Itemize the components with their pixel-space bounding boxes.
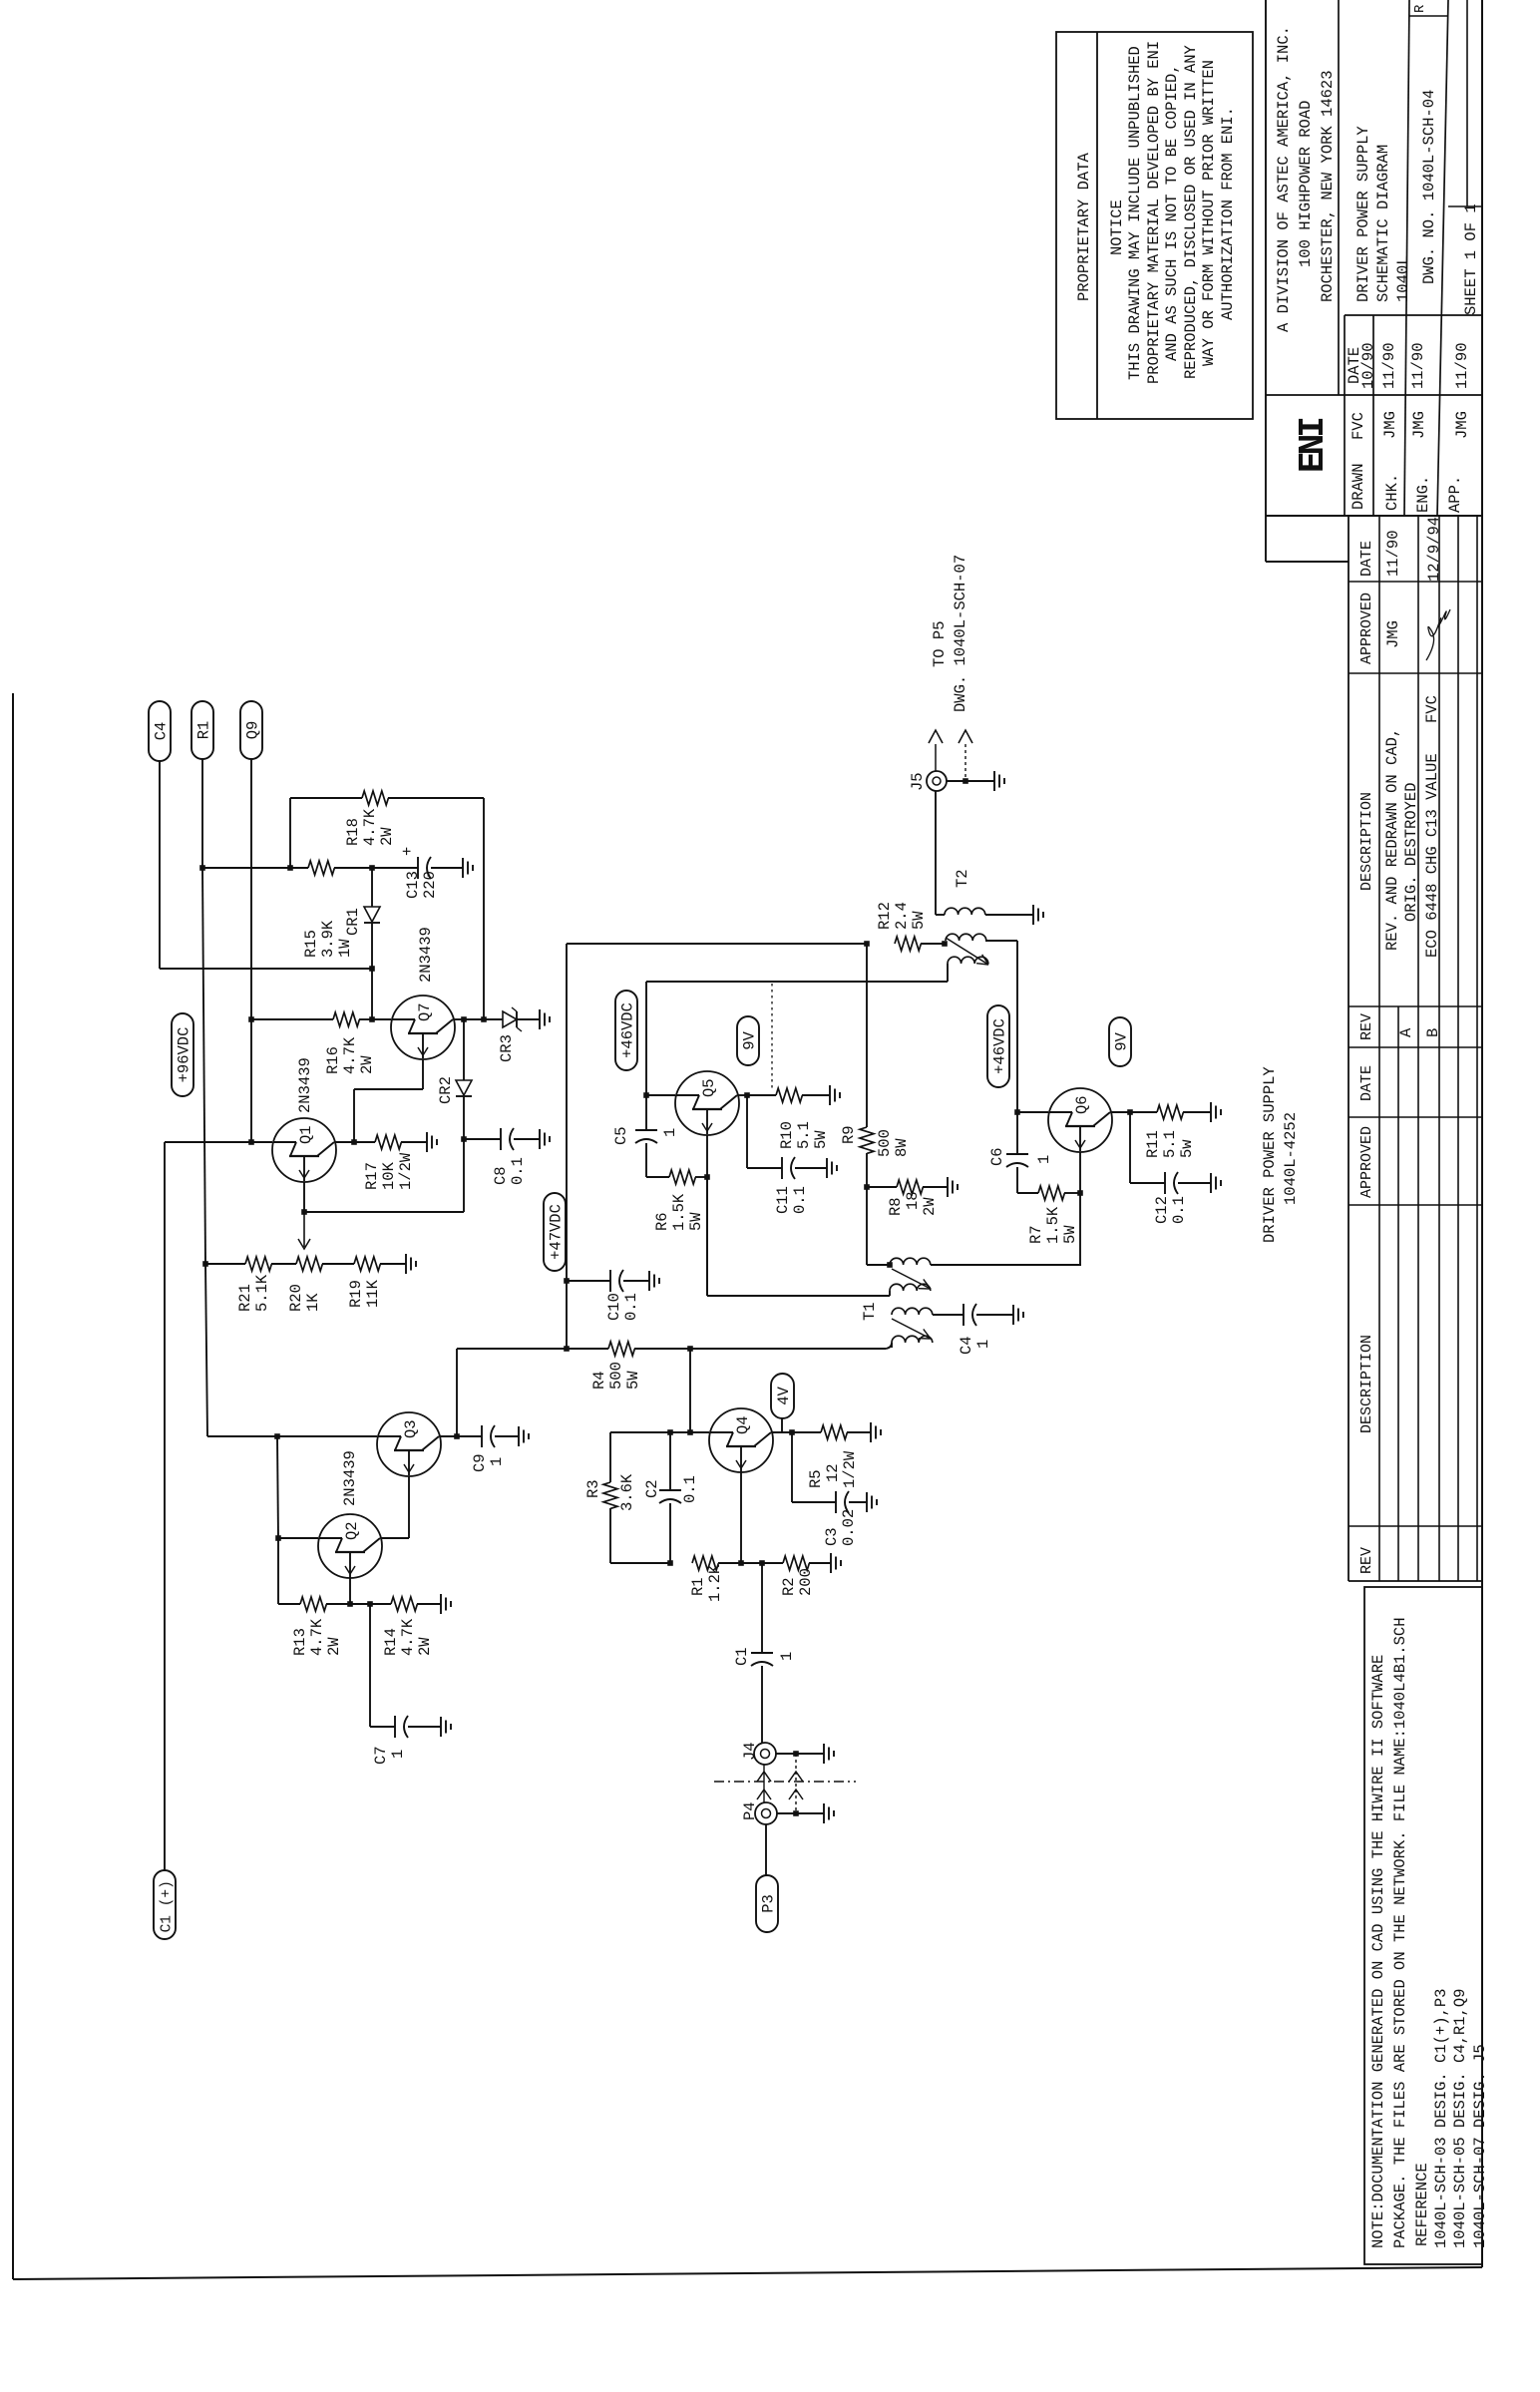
svg-text:0.1: 0.1: [509, 1157, 527, 1185]
ground C13: [462, 858, 464, 878]
svg-text:1040L-4252: 1040L-4252: [1282, 1112, 1300, 1205]
wire Q5 base: [646, 1094, 675, 1096]
svg-text:ENI: ENI: [1293, 419, 1334, 473]
transistor Q5: [675, 1071, 739, 1135]
wire C7 branch: [369, 1604, 371, 1727]
svg-text:220: 220: [421, 871, 439, 899]
wire Q1 collector: [335, 1141, 354, 1143]
revision strip rows: [1347, 516, 1349, 1581]
capacitor C5: [645, 1095, 647, 1130]
node Q3 base: [274, 1433, 280, 1439]
resistor R7: [1038, 1186, 1064, 1200]
svg-text:R7: R7: [1027, 1225, 1045, 1244]
svg-text:3.6K: 3.6K: [618, 1473, 636, 1511]
flag +46VDC 2: [987, 1005, 1009, 1087]
svg-text:5.1: 5.1: [795, 1121, 813, 1149]
svg-text:C1 (+): C1 (+): [160, 1880, 176, 1932]
svg-text:R12: R12: [876, 902, 894, 930]
capacitor C1: [751, 1652, 773, 1654]
svg-text:R6: R6: [653, 1212, 671, 1231]
ground C12: [1210, 1173, 1212, 1193]
svg-text:1: 1: [974, 1340, 992, 1349]
wire R18 right drop: [388, 797, 484, 799]
svg-text:NOTICE: NOTICE: [1108, 199, 1126, 255]
svg-text:CR1: CR1: [344, 908, 362, 936]
svg-text:P4: P4: [741, 1801, 759, 1820]
svg-text:C4: C4: [958, 1336, 975, 1355]
svg-text:2N3439: 2N3439: [296, 1057, 314, 1113]
transistor Q1 2N3439: [272, 1118, 336, 1182]
svg-text:PROPRIETARY DATA: PROPRIETARY DATA: [1075, 152, 1093, 301]
svg-text:REV. AND REDRAWN ON CAD,: REV. AND REDRAWN ON CAD,: [1383, 728, 1401, 951]
wire R13-R14 row: [326, 1603, 391, 1605]
svg-text:2W: 2W: [325, 1637, 343, 1656]
ground C10: [648, 1271, 650, 1291]
wire Q4 emitter: [740, 1471, 742, 1563]
svg-text:DWG. 1040L-SCH-07: DWG. 1040L-SCH-07: [952, 555, 969, 712]
wire P4 to P3: [765, 1824, 767, 1875]
svg-text:+46VDC: +46VDC: [619, 1002, 637, 1058]
REV box top right: [1409, 15, 1448, 17]
svg-text:APPROVED: APPROVED: [1358, 1126, 1375, 1198]
connector separation line: [714, 1781, 856, 1783]
svg-text:R18: R18: [344, 818, 362, 846]
svg-text:12/9/94: 12/9/94: [1425, 517, 1443, 582]
wire Q6 emitter: [1079, 1152, 1081, 1193]
node CR1-C4: [369, 966, 375, 972]
svg-text:R17: R17: [363, 1162, 381, 1190]
ground R2: [809, 1562, 831, 1564]
svg-text:1: 1: [389, 1750, 407, 1759]
svg-text:JMG: JMG: [1453, 411, 1471, 439]
svg-text:18: 18: [904, 1191, 922, 1210]
svg-text:THIS DRAWING MAY INCLUDE UNPUB: THIS DRAWING MAY INCLUDE UNPUBLISHED: [1126, 46, 1144, 380]
wire R7 row: [1017, 1192, 1038, 1194]
transistor Q7 2N3439: [391, 996, 455, 1059]
node Q6 base: [1014, 1109, 1020, 1115]
svg-text:2N3439: 2N3439: [341, 1450, 359, 1506]
svg-text:DESCRIPTION: DESCRIPTION: [1358, 1335, 1375, 1433]
capacitor C2: [669, 1432, 671, 1490]
flag +46VDC: [615, 991, 637, 1070]
wire Q3 collector riser: [456, 1349, 458, 1436]
arrow J5 shield out: [964, 744, 966, 781]
svg-text:ORIG. DESTROYED: ORIG. DESTROYED: [1402, 782, 1420, 922]
flag +96VDC: [172, 1013, 193, 1096]
wire R16 line: [248, 1016, 254, 1022]
svg-text:T2: T2: [954, 869, 971, 888]
svg-text:2W: 2W: [378, 827, 396, 846]
node R4 left: [564, 1346, 570, 1352]
capacitor C11: [781, 1157, 783, 1179]
wire Q7 collector: [454, 1018, 464, 1020]
ground C8: [539, 1129, 541, 1149]
resistor R16: [333, 1012, 359, 1026]
ground C4: [1012, 1305, 1014, 1325]
svg-text:4.7K: 4.7K: [361, 808, 379, 846]
ground R11: [1183, 1111, 1211, 1113]
svg-text:C7: C7: [372, 1746, 390, 1765]
revision strip column dividers: [1348, 581, 1482, 583]
resistor R19: [354, 1257, 380, 1271]
resistor R11: [1157, 1105, 1183, 1119]
svg-text:DWG. NO. 1040L-SCH-04: DWG. NO. 1040L-SCH-04: [1420, 90, 1438, 284]
svg-text:11/90: 11/90: [1384, 530, 1402, 577]
svg-text:Q5: Q5: [700, 1078, 718, 1097]
svg-text:0.1: 0.1: [791, 1186, 809, 1214]
wire R1/+96VDC bus: [201, 759, 203, 868]
svg-text:5W: 5W: [624, 1371, 642, 1390]
svg-text:REV: REV: [1358, 1013, 1375, 1040]
potentiometer R20: [296, 1257, 322, 1271]
wire Q4 base drop: [689, 1349, 691, 1432]
flag +47VDC: [544, 1193, 566, 1271]
svg-text:R1: R1: [195, 721, 213, 740]
flag Q9 (off-sheet): [240, 701, 262, 759]
svg-text:2N3439: 2N3439: [417, 927, 435, 983]
svg-text:C2: C2: [643, 1479, 661, 1498]
svg-text:A: A: [1397, 1027, 1415, 1037]
svg-text:R4: R4: [590, 1371, 608, 1390]
sheet border: [12, 693, 14, 2279]
svg-text:C5: C5: [612, 1126, 630, 1145]
svg-text:Q9: Q9: [244, 721, 262, 740]
svg-text:1: 1: [1035, 1155, 1053, 1164]
svg-text:C10: C10: [605, 1293, 623, 1321]
wire R6 to Q5 emitter: [695, 1176, 707, 1178]
svg-text:1: 1: [778, 1652, 796, 1661]
svg-text:CR3: CR3: [498, 1034, 516, 1062]
resistor R17: [375, 1135, 401, 1149]
svg-text:R3: R3: [584, 1479, 602, 1498]
svg-text:Q6: Q6: [1073, 1095, 1091, 1114]
connector J4: [754, 1743, 776, 1765]
capacitor C9: [481, 1425, 483, 1447]
node CR2-C8: [461, 1136, 467, 1142]
wire CR2 to Q1 emitter row: [463, 1139, 465, 1212]
wire +46VDC rail: [645, 982, 647, 1095]
svg-text:12: 12: [824, 1463, 842, 1482]
flag 9V: [737, 1016, 759, 1065]
svg-text:1040L-SCH-03 DESIG. C1(+),P3: 1040L-SCH-03 DESIG. C1(+),P3: [1432, 1989, 1450, 2248]
svg-text:Q7: Q7: [416, 1002, 434, 1021]
svg-text:1040L: 1040L: [1394, 255, 1412, 302]
wire C11 branch: [746, 1095, 748, 1168]
wire Q3 base: [277, 1435, 377, 1437]
T1 winding 3: [892, 1308, 933, 1315]
resistor R18: [362, 791, 388, 805]
svg-text:JMG: JMG: [1410, 411, 1428, 439]
wire R1 row: [738, 1560, 744, 1566]
resistor R14: [391, 1597, 417, 1611]
resistor R6: [669, 1170, 695, 1184]
wire R7 to Q6 emitter: [1064, 1192, 1080, 1194]
svg-text:200: 200: [797, 1568, 815, 1596]
svg-text:R20: R20: [287, 1284, 305, 1312]
svg-text:APP.: APP.: [1446, 476, 1464, 513]
wire R12 to T2: [921, 943, 945, 945]
ground R14: [417, 1603, 441, 1605]
svg-text:PROPRIETARY MATERIAL DEVELOPED: PROPRIETARY MATERIAL DEVELOPED BY ENI: [1145, 41, 1163, 384]
wire R6 row: [646, 1176, 669, 1178]
wire J4-P4 mate: [763, 1765, 765, 1802]
svg-text:REFERENCE: REFERENCE: [1413, 2163, 1431, 2246]
wire C4 bus: [159, 761, 161, 969]
svg-text:R8: R8: [887, 1197, 905, 1216]
svg-text:R11: R11: [1144, 1130, 1162, 1158]
svg-text:P3: P3: [760, 1894, 778, 1913]
T1 coupling arrow 2: [892, 1319, 931, 1339]
svg-text:Q2: Q2: [343, 1521, 361, 1540]
svg-text:Q4: Q4: [734, 1415, 752, 1434]
transistor Q4: [709, 1408, 773, 1472]
svg-text:4V: 4V: [775, 1386, 793, 1404]
svg-text:J4: J4: [741, 1742, 759, 1761]
ground R17: [401, 1141, 427, 1143]
wire R20-R19: [322, 1263, 354, 1265]
wire Q2 base drop: [277, 1436, 278, 1538]
svg-text:2W: 2W: [416, 1637, 434, 1656]
node Q1 base: [248, 1139, 254, 1145]
svg-text:DATE: DATE: [1358, 1065, 1375, 1101]
wire Q6 collector: [1111, 1111, 1130, 1113]
arrow J4 pin: [757, 1772, 771, 1782]
svg-text:PACKAGE. THE FILES ARE STORED: PACKAGE. THE FILES ARE STORED ON THE NET…: [1391, 1617, 1409, 2248]
resistor R9 vertical: [866, 944, 868, 1127]
svg-text:2W: 2W: [358, 1055, 376, 1074]
arrow J5 out: [935, 744, 937, 771]
svg-text:0.1: 0.1: [622, 1293, 640, 1321]
svg-text:B: B: [1424, 1028, 1442, 1037]
svg-text:5w: 5w: [1178, 1139, 1196, 1158]
svg-text:REPRODUCED, DISCLOSED OR USED: REPRODUCED, DISCLOSED OR USED IN ANY: [1182, 44, 1200, 379]
node Q7 base: [369, 1016, 375, 1022]
svg-text:ENG.: ENG.: [1414, 476, 1432, 513]
svg-text:10/90: 10/90: [1359, 342, 1377, 389]
svg-text:3.9K: 3.9K: [319, 920, 337, 958]
wire Q9 bus: [250, 759, 252, 1019]
svg-text:APPROVED: APPROVED: [1358, 593, 1375, 664]
svg-text:1W: 1W: [336, 939, 354, 958]
svg-text:+96VDC: +96VDC: [176, 1027, 193, 1083]
wire Q4 base: [690, 1431, 709, 1433]
ground P4: [823, 1803, 825, 1823]
ground C9: [518, 1426, 520, 1446]
notice box: [1056, 32, 1253, 419]
connector P4: [755, 1802, 777, 1824]
svg-text:1: 1: [661, 1128, 679, 1137]
flag C4 (off-sheet): [149, 701, 171, 761]
svg-text:C11: C11: [774, 1186, 792, 1214]
svg-text:0.1: 0.1: [1170, 1196, 1188, 1224]
transistor Q2 2N3439: [318, 1514, 382, 1578]
svg-text:10K: 10K: [380, 1161, 398, 1190]
svg-text:5W: 5W: [687, 1212, 705, 1231]
ground J4: [823, 1744, 825, 1764]
title block frame: [1265, 0, 1267, 562]
svg-text:Q3: Q3: [402, 1419, 420, 1438]
svg-text:T1: T1: [861, 1302, 879, 1321]
T2 winding 3: [948, 957, 988, 964]
svg-text:1/2W: 1/2W: [841, 1450, 859, 1488]
pot wiper arrow R20: [303, 1212, 305, 1247]
wire Q2 collector to Q3 emitter: [381, 1537, 409, 1539]
ground CR3: [539, 1009, 541, 1029]
ground R5: [847, 1431, 871, 1433]
T1 winding 1: [887, 1262, 893, 1268]
svg-text:2.4: 2.4: [893, 902, 911, 930]
svg-text:FVC: FVC: [1423, 695, 1441, 723]
svg-text:CHK.: CHK.: [1383, 474, 1401, 511]
svg-text:500: 500: [876, 1129, 894, 1157]
svg-text:ECO 6448 CHG C13 VALUE: ECO 6448 CHG C13 VALUE: [1423, 753, 1441, 958]
svg-text:AUTHORIZATION FROM ENI.: AUTHORIZATION FROM ENI.: [1219, 107, 1237, 320]
svg-text:AND AS SUCH IS NOT TO BE COPIE: AND AS SUCH IS NOT TO BE COPIED,: [1163, 64, 1181, 361]
ground R19: [380, 1263, 406, 1265]
capacitor C8: [500, 1128, 502, 1150]
wire Q5 emitter: [706, 1135, 708, 1296]
svg-text:SHEET 1 OF 1: SHEET 1 OF 1: [1462, 203, 1480, 315]
wire R21-R20: [271, 1263, 296, 1265]
flag P3: [756, 1875, 778, 1932]
svg-text:NOTE:DOCUMENTATION GENERATED O: NOTE:DOCUMENTATION GENERATED ON CAD USIN…: [1369, 1655, 1387, 2248]
svg-text:REV: REV: [1358, 1547, 1375, 1574]
svg-text:R15: R15: [302, 930, 320, 958]
wire jog to T1: [886, 1343, 892, 1349]
note box: [1364, 1587, 1482, 2264]
svg-text:1040L-SCH-07 DESIG. J5: 1040L-SCH-07 DESIG. J5: [1471, 2044, 1489, 2248]
svg-text:CR2: CR2: [437, 1076, 455, 1104]
svg-text:R13: R13: [291, 1628, 309, 1656]
svg-text:0.02: 0.02: [840, 1509, 858, 1546]
svg-text:9V: 9V: [1113, 1031, 1131, 1050]
resistor R12: [895, 937, 921, 951]
wire R18 left: [290, 797, 362, 799]
T2 winding 2: [946, 934, 986, 941]
svg-text:5.1K: 5.1K: [253, 1274, 271, 1312]
resistor R21: [245, 1257, 271, 1271]
svg-text:5W: 5W: [1061, 1225, 1079, 1244]
wire R3/C2 top: [670, 1431, 690, 1433]
svg-text:+: +: [399, 847, 417, 856]
wire +47VDC bus: [566, 944, 568, 1349]
wire R4 right: [634, 1348, 690, 1350]
svg-text:C6: C6: [988, 1147, 1006, 1166]
svg-text:4.7K: 4.7K: [308, 1618, 326, 1656]
T1 winding 2: [890, 1284, 931, 1291]
wire R21 row: [202, 1261, 208, 1267]
svg-text:R: R: [1412, 4, 1428, 13]
sheet size box: [1466, 0, 1468, 206]
ground R8: [923, 1186, 948, 1188]
rev B signature: [1426, 609, 1450, 660]
svg-text:DRAWN: DRAWN: [1349, 463, 1367, 510]
diode CR2: [463, 1019, 465, 1080]
svg-text:DRIVER POWER SUPPLY: DRIVER POWER SUPPLY: [1354, 126, 1372, 302]
svg-text:5W: 5W: [910, 911, 928, 930]
svg-text:1.5K: 1.5K: [670, 1193, 688, 1231]
svg-text:C3: C3: [823, 1527, 841, 1546]
svg-text:R2: R2: [780, 1577, 798, 1596]
svg-text:1040L-SCH-05 DESIG. C4,R1,Q9: 1040L-SCH-05 DESIG. C4,R1,Q9: [1451, 1989, 1469, 2248]
ground C3: [866, 1492, 868, 1512]
resistor R4: [608, 1342, 634, 1356]
svg-text:+47VDC: +47VDC: [548, 1204, 566, 1260]
arrow J4 gnd pin: [789, 1772, 803, 1782]
resistor R15: [308, 861, 334, 875]
svg-text:R14: R14: [382, 1628, 400, 1656]
svg-text:4.7K: 4.7K: [341, 1036, 359, 1074]
transistor Q6: [1048, 1088, 1112, 1152]
svg-text:DRIVER POWER SUPPLY: DRIVER POWER SUPPLY: [1261, 1066, 1279, 1243]
T1 coupling arrow 1: [892, 1269, 931, 1289]
wire C1(+) bus: [164, 1142, 166, 1870]
flag 4V: [771, 1374, 794, 1418]
svg-text:TO P5: TO P5: [931, 620, 949, 667]
svg-text:R10: R10: [778, 1121, 796, 1149]
wire P4 ground: [777, 1812, 796, 1814]
svg-text:J5: J5: [909, 772, 927, 791]
wire C3 branch: [791, 1432, 793, 1502]
resistor R10: [776, 1088, 802, 1102]
svg-text:2W: 2W: [921, 1197, 939, 1216]
svg-text:R16: R16: [324, 1046, 342, 1074]
svg-text:1: 1: [488, 1457, 506, 1466]
T1 winding 4: [892, 1336, 933, 1343]
wire C13 branch: [372, 867, 418, 869]
svg-text:DATE: DATE: [1358, 541, 1375, 577]
wire J5 shield: [947, 780, 965, 782]
resistor R1 1.2K: [692, 1556, 718, 1570]
wire Q2 emitter: [349, 1577, 351, 1604]
wire Q2 base: [278, 1537, 318, 1539]
ground J5: [993, 771, 995, 791]
svg-text:C4: C4: [153, 722, 171, 741]
svg-text:C8: C8: [492, 1166, 510, 1185]
ground C7: [440, 1717, 442, 1737]
svg-text:R9: R9: [840, 1125, 858, 1144]
wire J4 ground: [776, 1753, 796, 1755]
wire Q4 collector: [772, 1431, 792, 1433]
wire J5 stem: [935, 791, 937, 915]
svg-text:SCHEMATIC DIAGRAM: SCHEMATIC DIAGRAM: [1374, 145, 1392, 302]
svg-text:R5: R5: [807, 1469, 825, 1488]
node R8: [864, 1184, 870, 1190]
transistor Q3 2N3439: [377, 1412, 441, 1476]
wire C1 drop: [761, 1563, 763, 1653]
T2 coupling arrow: [946, 938, 988, 965]
svg-text:JMG: JMG: [1381, 411, 1399, 439]
wire R3 bottom: [609, 1508, 611, 1563]
svg-text:1/2W: 1/2W: [397, 1152, 415, 1190]
wire R16-Q7: [359, 1018, 372, 1020]
connector J5: [927, 771, 947, 791]
wire Q3 collector: [440, 1435, 457, 1437]
flag R1 (off-sheet): [192, 701, 213, 759]
wire T2 tert feed: [646, 981, 948, 983]
svg-text:8W: 8W: [893, 1138, 911, 1157]
ground T2: [1032, 905, 1034, 925]
capacitor C12: [1164, 1172, 1166, 1194]
resistor R5: [821, 1425, 847, 1439]
svg-text:11K: 11K: [364, 1279, 382, 1308]
svg-text:JMG: JMG: [1384, 620, 1402, 648]
svg-text:R19: R19: [347, 1280, 365, 1308]
leader 9V: [771, 984, 773, 1091]
svg-text:100 HIGHPOWER ROAD: 100 HIGHPOWER ROAD: [1297, 101, 1315, 267]
svg-text:C13: C13: [404, 871, 422, 899]
svg-text:ROCHESTER, NEW YORK 14623: ROCHESTER, NEW YORK 14623: [1319, 70, 1337, 302]
